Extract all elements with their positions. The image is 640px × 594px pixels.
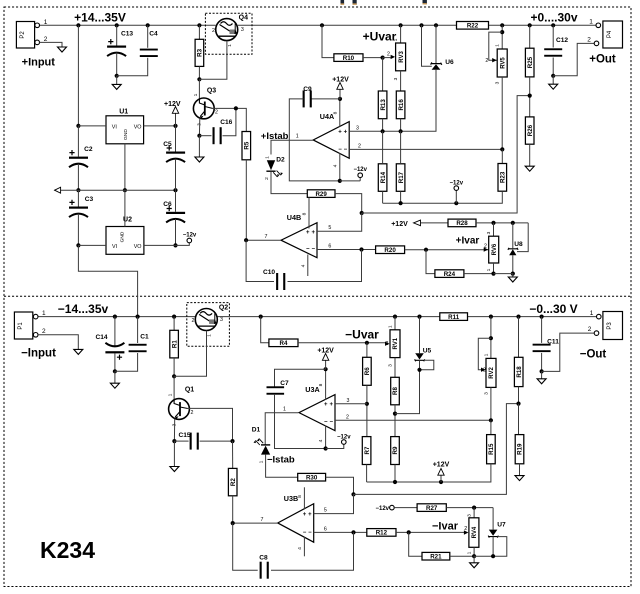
resistor R9 xyxy=(391,437,400,465)
junction RV4 bottom xyxy=(472,554,476,558)
svg-text:+12V: +12V xyxy=(317,348,334,355)
svg-text:R27: R27 xyxy=(426,505,438,512)
resistor R3 xyxy=(197,23,201,27)
P1 pin 1 xyxy=(33,314,38,319)
svg-text:2: 2 xyxy=(464,526,467,532)
transistor Q2 dashed enclosure xyxy=(187,303,230,347)
junction R8/U5 net xyxy=(393,412,397,416)
transistor Q3 xyxy=(198,79,200,98)
svg-text:R19: R19 xyxy=(517,443,524,455)
U4A pin 2 wire xyxy=(349,148,502,150)
wire U2 VO to C6 node xyxy=(144,244,176,246)
svg-text:R6: R6 xyxy=(364,367,371,375)
svg-text:1: 1 xyxy=(495,44,501,47)
resistor R18 xyxy=(514,357,523,386)
wire U1 output to +12V node xyxy=(144,125,176,127)
svg-text:1: 1 xyxy=(296,133,299,139)
svg-text:R5: R5 xyxy=(244,141,251,149)
svg-text:R30: R30 xyxy=(306,475,318,482)
svg-text:VO: VO xyxy=(134,124,142,130)
svg-text:+: + xyxy=(311,230,315,236)
svg-text:+: + xyxy=(308,512,312,518)
U4A pin 8 (+12V) xyxy=(339,99,341,127)
svg-text:−Out: −Out xyxy=(580,349,607,361)
resistor R23 xyxy=(498,164,507,192)
svg-text:GND: GND xyxy=(123,129,129,140)
wire Q4 pin1 to Q3 collector node xyxy=(199,41,227,80)
+12V arrow above U4A xyxy=(339,87,341,99)
U3B pin 4 stub xyxy=(303,537,305,556)
resistor R14 xyxy=(378,164,387,192)
svg-text:1: 1 xyxy=(486,268,492,271)
potentiometer RV1 xyxy=(390,330,400,358)
svg-text:R20: R20 xyxy=(384,247,396,254)
svg-text:R12: R12 xyxy=(376,530,388,537)
svg-text:U5: U5 xyxy=(423,348,432,355)
svg-text:Q3: Q3 xyxy=(207,88,216,95)
svg-text:2: 2 xyxy=(588,326,592,333)
resistor R25 xyxy=(525,48,534,77)
svg-text:R10: R10 xyxy=(343,55,355,62)
svg-text:P4: P4 xyxy=(607,30,613,38)
resistor R1 xyxy=(172,315,176,319)
svg-text:−Ivar: −Ivar xyxy=(432,521,459,533)
svg-text:4: 4 xyxy=(333,164,339,167)
resistor R19 xyxy=(518,404,520,435)
potentiometer RV6 xyxy=(489,236,499,263)
svg-text:R7: R7 xyxy=(364,446,371,454)
svg-text:1: 1 xyxy=(206,334,212,337)
svg-text:R9: R9 xyxy=(392,446,399,454)
svg-text:+0....30v: +0....30v xyxy=(530,11,577,25)
svg-text:R2: R2 xyxy=(230,478,237,486)
svg-text:+Istab: +Istab xyxy=(261,131,289,142)
svg-text:−: − xyxy=(329,419,333,425)
+12V arrow above U3A xyxy=(325,358,327,369)
resistor R20 xyxy=(376,246,405,254)
capacitor C3 xyxy=(77,190,79,206)
svg-text:C9: C9 xyxy=(303,86,312,93)
svg-text:RV4: RV4 xyxy=(472,526,478,538)
P4 pin 1 xyxy=(596,23,601,28)
connector P1 xyxy=(14,312,32,339)
svg-text:−: − xyxy=(324,419,328,425)
wire -rail right segment xyxy=(218,316,440,318)
svg-text:1: 1 xyxy=(265,156,271,159)
junction Q1 collector / C15 / R2 xyxy=(230,439,234,443)
svg-text:−12v: −12v xyxy=(183,233,197,239)
resistor R13 xyxy=(382,58,384,91)
svg-text:2: 2 xyxy=(212,28,215,34)
resistor R21 xyxy=(422,552,450,560)
section divider xyxy=(4,295,631,297)
resistor R22 xyxy=(457,22,489,30)
wire rail to R4 drop xyxy=(259,315,263,319)
svg-text:C12: C12 xyxy=(556,37,568,44)
resistor R1 xyxy=(170,330,179,358)
junction R12/R21/RV4 wiper xyxy=(407,530,411,534)
svg-text:4: 4 xyxy=(297,547,303,550)
svg-text:2: 2 xyxy=(215,110,218,116)
svg-text:U2: U2 xyxy=(123,217,132,224)
svg-text:−: − xyxy=(303,530,307,536)
svg-text:2: 2 xyxy=(387,52,390,58)
U3A output wire to D1 xyxy=(265,413,298,445)
svg-text:+: + xyxy=(344,129,348,135)
svg-text:2: 2 xyxy=(192,318,195,324)
svg-text:RV5: RV5 xyxy=(500,57,506,69)
junction R11 right / RV2 xyxy=(489,315,493,319)
svg-text:+: + xyxy=(324,402,328,408)
U3A pin 8 (+12V) xyxy=(325,369,327,400)
zener U8 xyxy=(512,223,514,248)
-12v terminal at U3A xyxy=(326,444,344,448)
svg-text:C4: C4 xyxy=(149,31,158,38)
svg-text:2: 2 xyxy=(587,37,591,44)
svg-text:+14...35V: +14...35V xyxy=(74,11,126,25)
resistor R4 xyxy=(269,339,298,347)
svg-text:RV2: RV2 xyxy=(489,366,495,378)
capacitor C9 xyxy=(311,98,340,100)
capacitor C12 xyxy=(551,23,555,27)
junction C12 bottom xyxy=(551,74,555,78)
junction pin5 sense node (bottom) xyxy=(351,492,355,496)
svg-text:P3: P3 xyxy=(607,322,613,330)
junction R20/R24/RV6 wiper xyxy=(424,248,428,252)
resistor R7 xyxy=(362,437,371,465)
transistor Q4 xyxy=(216,19,238,41)
junction Q1 emitter / C15 xyxy=(172,439,176,443)
svg-text:R4: R4 xyxy=(279,340,287,347)
svg-text:7: 7 xyxy=(265,234,268,240)
svg-text:VO: VO xyxy=(134,244,142,250)
svg-text:3: 3 xyxy=(220,317,223,323)
svg-text:C1: C1 xyxy=(140,334,149,341)
-12v terminal at U2 output xyxy=(176,243,190,246)
svg-text:U7: U7 xyxy=(497,522,506,529)
resistor R29 xyxy=(307,190,335,198)
svg-text:2: 2 xyxy=(346,414,349,420)
resistor R2 xyxy=(228,468,237,495)
wire Q1 collector xyxy=(188,408,233,441)
svg-text:−: − xyxy=(344,147,348,153)
svg-text:5: 5 xyxy=(324,508,327,514)
common rail arrow (left) xyxy=(54,189,175,191)
RV3 pin3 to R16 xyxy=(400,71,402,91)
potentiometer RV5 xyxy=(501,25,503,49)
junction U8 bottom xyxy=(511,272,515,276)
junction R17 bottom xyxy=(399,201,403,205)
resistor R15 xyxy=(487,435,496,464)
svg-text:+Out: +Out xyxy=(589,54,616,66)
capacitor C1 xyxy=(136,315,140,319)
svg-text:1: 1 xyxy=(393,38,399,41)
svg-text:K234: K234 xyxy=(40,537,95,563)
svg-text:3: 3 xyxy=(347,398,350,404)
svg-text:D2: D2 xyxy=(276,157,285,164)
resistor R19 xyxy=(515,435,524,464)
svg-text:−Input: −Input xyxy=(21,348,56,360)
svg-text:1: 1 xyxy=(283,407,286,413)
svg-text:1: 1 xyxy=(42,310,46,317)
junction R9 bottom xyxy=(393,480,397,484)
junction pin5 sense node xyxy=(360,211,364,215)
junction R28/RV6 xyxy=(491,221,495,225)
svg-text:1: 1 xyxy=(590,310,594,317)
resistor R8 xyxy=(391,377,400,405)
connector P3 xyxy=(603,312,623,340)
U8 cathode loop xyxy=(517,223,528,252)
svg-text:1: 1 xyxy=(227,44,233,47)
wire P2 pin2 to ground xyxy=(40,42,63,47)
svg-text:R26: R26 xyxy=(527,124,534,136)
svg-text:1: 1 xyxy=(259,460,265,463)
potentiometer RV4 xyxy=(473,508,475,518)
wire rail down to U1 VI xyxy=(77,25,79,126)
diode U6 top feed xyxy=(419,23,423,27)
potentiometer RV3 xyxy=(396,43,406,71)
svg-text:C3: C3 xyxy=(85,196,94,203)
svg-text:+12V: +12V xyxy=(391,221,408,228)
svg-text:3: 3 xyxy=(356,125,359,131)
U3A pin 2 wire (feedback) xyxy=(335,419,491,421)
RV2 pin3 down to feedback node xyxy=(490,387,492,420)
svg-text:Q1: Q1 xyxy=(185,387,194,394)
wire U1 GND down xyxy=(124,144,126,190)
svg-text:VI: VI xyxy=(112,244,117,250)
U4B pin 6 wire xyxy=(317,249,376,251)
svg-text:R11: R11 xyxy=(448,314,460,321)
svg-text:1: 1 xyxy=(483,353,489,356)
op-amp U3A xyxy=(299,395,335,431)
svg-text:1: 1 xyxy=(467,551,473,554)
svg-text:7: 7 xyxy=(261,517,264,523)
U3B pin 5 wire xyxy=(314,494,354,513)
ground below Q3 xyxy=(198,136,200,157)
capacitor C4 xyxy=(146,23,150,27)
junction mid rail / C2-C3 xyxy=(76,188,80,192)
junction U7 bottom xyxy=(491,554,495,558)
wire P1 pin2 to ground xyxy=(38,335,78,350)
svg-text:C11: C11 xyxy=(547,339,559,346)
op-amp U4A xyxy=(313,122,349,159)
capacitor C10 xyxy=(246,240,274,281)
svg-text:+12V: +12V xyxy=(433,462,450,469)
ground below C13 xyxy=(116,76,118,85)
svg-text:P2: P2 xyxy=(20,31,26,39)
resistor R2 xyxy=(232,441,234,468)
svg-text:−14...35v: −14...35v xyxy=(58,302,109,316)
U3B pin 8 stub xyxy=(303,487,305,509)
junction feedback/R15 xyxy=(489,418,493,422)
wire U6 anode down to pin3 net xyxy=(401,70,436,132)
svg-text:R13: R13 xyxy=(380,99,387,111)
svg-text:−: − xyxy=(311,247,315,253)
svg-text:2: 2 xyxy=(483,368,486,374)
resistor R25 xyxy=(528,23,532,27)
svg-text:3: 3 xyxy=(495,81,501,84)
svg-text:8: 8 xyxy=(318,383,324,386)
svg-text:+: + xyxy=(306,230,310,236)
wire D2 to R29 xyxy=(271,171,307,193)
svg-text:1: 1 xyxy=(168,393,174,396)
U4B pin 4 stub xyxy=(307,255,309,277)
wire R23 bottom to -12v rail wire xyxy=(383,191,503,203)
svg-text:R8: R8 xyxy=(392,387,399,395)
capacitor C16 xyxy=(199,135,211,137)
junction Q3 emitter / C16 xyxy=(197,134,201,138)
capacitor C14 xyxy=(113,315,117,319)
U4A pin 3 wire xyxy=(349,130,400,132)
resistor R11 xyxy=(440,313,468,321)
junction C14 bottom xyxy=(113,369,117,373)
resistor R16 xyxy=(396,91,405,119)
junction rail/U1 feed xyxy=(76,23,80,27)
transistor Q4 dashed enclosure xyxy=(205,13,252,54)
transistor Q1 xyxy=(173,376,175,399)
junction R6 bottom pin3 net xyxy=(365,402,369,406)
pin5 sense wire to output divider (bottom) xyxy=(354,404,519,495)
U3A pin 3 wire xyxy=(335,403,367,405)
U4B pin 8 stub xyxy=(308,197,310,228)
U4B pin 5 wire xyxy=(317,213,362,231)
zener U7 xyxy=(492,508,494,530)
resistor R24 xyxy=(426,250,435,274)
svg-text:−: − xyxy=(306,247,310,253)
svg-text:1: 1 xyxy=(387,325,393,328)
junction R4 / R6 / RV1 wiper xyxy=(365,341,369,345)
svg-text:C15: C15 xyxy=(178,432,190,439)
svg-text:+: + xyxy=(303,512,307,518)
potentiometer RV6 xyxy=(493,223,495,236)
svg-text:D1: D1 xyxy=(252,427,261,434)
junction R18 bottom sense tap xyxy=(516,402,520,406)
svg-text:3: 3 xyxy=(483,392,489,395)
ground below RV4 xyxy=(474,556,493,563)
RV1 pin3 to R8 xyxy=(394,358,396,378)
svg-text:8: 8 xyxy=(332,111,338,114)
svg-text:2: 2 xyxy=(485,58,488,64)
ground at P2 xyxy=(58,47,67,52)
P4 pin 2 xyxy=(594,41,599,46)
ground below R19 xyxy=(515,476,524,481)
top edge cropped text fragments xyxy=(341,0,345,5)
svg-text:3: 3 xyxy=(241,27,244,33)
P2 pin 1 xyxy=(35,23,40,28)
resistor R12 xyxy=(367,529,396,537)
svg-text:R21: R21 xyxy=(430,554,442,561)
svg-text:R3: R3 xyxy=(197,48,204,56)
svg-text:U3B: U3B xyxy=(284,494,298,503)
svg-text:C8: C8 xyxy=(259,555,268,562)
junction C3 bottom xyxy=(76,243,80,247)
U4A output wire to D2 xyxy=(271,140,313,154)
op-amp U3B xyxy=(278,504,314,543)
svg-text:Q4: Q4 xyxy=(239,15,248,22)
resistor R27 xyxy=(417,504,446,512)
potentiometer RV3 xyxy=(399,23,403,27)
resistor R5 xyxy=(242,132,251,160)
svg-text:6: 6 xyxy=(324,526,327,532)
svg-text:R15: R15 xyxy=(488,443,495,455)
junction R1 bottom / Q1 base xyxy=(172,374,176,378)
svg-text:−12v: −12v xyxy=(353,167,367,173)
svg-text:C16: C16 xyxy=(220,119,232,126)
capacitor C8 xyxy=(233,523,258,570)
svg-text:C14: C14 xyxy=(95,334,107,341)
svg-text:C13: C13 xyxy=(121,31,133,38)
capacitor C7 xyxy=(275,369,326,387)
-12v terminal on lower net xyxy=(454,201,458,205)
wire +rail left segment xyxy=(37,24,215,26)
svg-text:+12V: +12V xyxy=(332,77,349,84)
capacitor C13 xyxy=(115,23,119,27)
connector P4 xyxy=(603,21,623,48)
junction U5 loop xyxy=(417,368,421,372)
potentiometer RV1 xyxy=(393,315,397,319)
wire C12 bottom to P4 pin2 xyxy=(553,43,594,75)
svg-text:6: 6 xyxy=(328,244,331,250)
svg-text:P1: P1 xyxy=(18,322,24,330)
+12V arrow at U1 output xyxy=(175,111,177,126)
ground below C11 xyxy=(541,371,543,378)
ground below C14 xyxy=(114,371,116,383)
U3B pin 7 (output) wire xyxy=(233,522,278,524)
resistor R24 xyxy=(435,270,464,278)
junction R10 / RV3 wiper / R13 xyxy=(381,56,385,60)
svg-text:5: 5 xyxy=(328,225,331,231)
junction feedback/R23 xyxy=(500,147,504,151)
svg-text:R22: R22 xyxy=(467,23,479,30)
junction R27/RV4 xyxy=(472,506,476,510)
wire R15 bottom to +12V rail wire xyxy=(367,464,491,482)
svg-text:4: 4 xyxy=(318,439,324,442)
junction C11 bottom xyxy=(540,369,544,373)
ground below Q1 xyxy=(173,441,175,466)
resistor R17 xyxy=(396,164,405,192)
U3A pin 4 (-12V) xyxy=(325,426,327,449)
svg-text:+Uvar: +Uvar xyxy=(363,30,397,44)
wire Q3 emitter xyxy=(198,118,200,136)
wire U1 input xyxy=(76,124,80,128)
svg-text:2: 2 xyxy=(191,410,194,416)
resistor R3 xyxy=(195,39,204,66)
svg-text:C6: C6 xyxy=(163,201,172,208)
svg-text:RV6: RV6 xyxy=(492,243,498,255)
resistor R30 xyxy=(298,473,326,481)
capacitor C11 xyxy=(540,315,544,319)
wire Q2 pin1 to Q1 collector node xyxy=(174,331,206,377)
resistor R6 xyxy=(366,343,368,358)
svg-text:2: 2 xyxy=(358,144,361,150)
svg-text:+Ivar: +Ivar xyxy=(456,236,480,247)
svg-text:VI: VI xyxy=(112,124,117,130)
svg-text:Q2: Q2 xyxy=(219,305,228,312)
svg-text:3: 3 xyxy=(393,77,399,80)
svg-text:U4B: U4B xyxy=(287,213,301,222)
ground below R26 xyxy=(525,166,534,171)
potentiometer RV4 xyxy=(469,518,479,548)
-12v terminal at U4A xyxy=(340,180,360,182)
svg-text:C7: C7 xyxy=(280,380,289,387)
svg-text:+: + xyxy=(338,129,342,135)
svg-text:−12v: −12v xyxy=(337,435,351,441)
RV3 wiper wire xyxy=(383,57,391,59)
wire -rail feed crossing divider xyxy=(78,245,137,316)
svg-text:RV1: RV1 xyxy=(393,337,399,349)
U3B pin 6 wire xyxy=(314,531,367,533)
svg-text:U6: U6 xyxy=(445,59,454,66)
